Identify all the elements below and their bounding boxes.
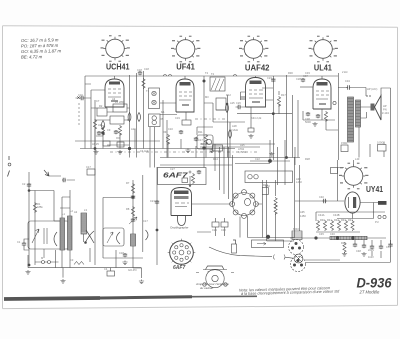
svg-text:A35: A35 xyxy=(300,210,305,214)
svg-text:A6 25: A6 25 xyxy=(92,142,99,146)
svg-text:A2: A2 xyxy=(74,210,78,214)
svg-text:R8: R8 xyxy=(126,207,130,211)
svg-text:A9: A9 xyxy=(98,123,102,127)
svg-text:UY41: UY41 xyxy=(366,185,383,194)
svg-text:C19: C19 xyxy=(175,116,180,120)
svg-text:R7: R7 xyxy=(126,181,130,185)
svg-text:C44B: C44B xyxy=(333,213,340,217)
svg-text:6AF7: 6AF7 xyxy=(163,171,189,180)
svg-text:C23: C23 xyxy=(267,76,272,80)
svg-text:1450: 1450 xyxy=(300,214,306,218)
svg-text:C26: C26 xyxy=(236,101,241,105)
svg-text:C2: C2 xyxy=(22,182,26,186)
svg-text:C33: C33 xyxy=(305,71,310,75)
svg-text:280: 280 xyxy=(119,100,124,104)
svg-text:R50: R50 xyxy=(265,184,270,188)
svg-text:R28: R28 xyxy=(305,157,310,161)
svg-text:R44: R44 xyxy=(348,218,353,222)
svg-text:C22: C22 xyxy=(255,157,260,161)
svg-text:C17: C17 xyxy=(198,138,203,142)
svg-text:C17: C17 xyxy=(86,165,91,169)
svg-text:2T Modèle: 2T Modèle xyxy=(359,290,380,295)
svg-text:M: M xyxy=(41,256,43,260)
svg-text:4,7MΩ: 4,7MΩ xyxy=(238,150,246,154)
svg-text:C34: C34 xyxy=(345,79,350,83)
svg-text:C18: C18 xyxy=(144,67,149,71)
svg-text:C16: C16 xyxy=(78,93,83,97)
svg-text:C10: C10 xyxy=(168,127,173,131)
svg-text:R41: R41 xyxy=(327,218,332,222)
svg-text:C27: C27 xyxy=(170,167,175,171)
svg-text:6040: 6040 xyxy=(293,227,299,231)
svg-text:PU: PU xyxy=(375,220,379,224)
svg-text:BE: 4,72 m: BE: 4,72 m xyxy=(21,54,43,59)
svg-text:UL41: UL41 xyxy=(314,64,333,73)
svg-text:110V: 110V xyxy=(368,255,374,259)
svg-text:C21: C21 xyxy=(150,199,155,203)
svg-text:C29: C29 xyxy=(212,228,217,232)
svg-text:M3: M3 xyxy=(205,95,209,99)
svg-text:A34 2,2k: A34 2,2k xyxy=(251,116,262,120)
svg-text:2 kΩ: 2 kΩ xyxy=(342,70,347,74)
svg-text:R42: R42 xyxy=(334,218,339,222)
svg-text:L450: L450 xyxy=(296,180,302,184)
svg-text:HP (A/C): HP (A/C) xyxy=(367,87,377,91)
svg-text:C4 4nF: C4 4nF xyxy=(140,149,149,153)
svg-text:A10: A10 xyxy=(131,127,136,131)
svg-text:D-936: D-936 xyxy=(357,276,392,291)
svg-text:C18: C18 xyxy=(119,251,124,255)
svg-text:C51: C51 xyxy=(386,245,391,249)
svg-text:du cadran: du cadran xyxy=(200,286,214,290)
svg-text:A15: A15 xyxy=(230,101,235,105)
svg-text:R40: R40 xyxy=(320,218,325,222)
svg-text:R30: R30 xyxy=(288,71,293,75)
svg-text:185k: 185k xyxy=(37,205,43,209)
svg-text:UAF42: UAF42 xyxy=(245,64,270,73)
svg-text:C44A: C44A xyxy=(318,213,325,217)
svg-text:A3: A3 xyxy=(112,97,116,101)
svg-text:C28: C28 xyxy=(296,77,301,81)
svg-text:R12: R12 xyxy=(226,93,231,97)
svg-text:R5: R5 xyxy=(160,117,164,121)
svg-text:C18: C18 xyxy=(137,68,142,72)
svg-text:C1: C1 xyxy=(17,240,21,244)
svg-text:PN: PN xyxy=(383,108,387,112)
svg-text:R11: R11 xyxy=(198,130,203,134)
svg-text:R2: R2 xyxy=(99,104,103,108)
svg-text:100Ω: 100Ω xyxy=(377,141,383,145)
svg-text:2,2kΩ: 2,2kΩ xyxy=(231,128,238,132)
svg-text:220V: 220V xyxy=(368,248,374,252)
svg-text:UF41: UF41 xyxy=(176,63,195,72)
svg-text:R17: R17 xyxy=(281,93,286,97)
svg-text:HP: HP xyxy=(383,104,387,108)
svg-text:C9: C9 xyxy=(107,128,111,132)
svg-text:GO: 6,35 m à 1,87 m: GO: 6,35 m à 1,87 m xyxy=(21,48,62,54)
svg-text:A25: A25 xyxy=(240,143,245,147)
svg-text:C17: C17 xyxy=(143,219,148,223)
svg-text:C46: C46 xyxy=(330,232,335,236)
svg-text:C7: C7 xyxy=(96,99,100,103)
svg-text:Oscillographe: Oscillographe xyxy=(170,226,189,230)
svg-text:C48: C48 xyxy=(356,249,361,253)
svg-text:A18: A18 xyxy=(232,124,237,128)
svg-text:GO-PO: GO-PO xyxy=(128,268,137,272)
svg-text:150Ω: 150Ω xyxy=(341,141,347,145)
svg-text:Z-134: Z-134 xyxy=(382,111,389,115)
svg-text:R4: R4 xyxy=(127,118,131,122)
svg-text:R9: R9 xyxy=(163,130,167,134)
svg-text:C3: C3 xyxy=(70,258,74,262)
svg-text:UCH41: UCH41 xyxy=(106,63,130,72)
svg-text:M1: M1 xyxy=(161,110,165,114)
svg-text:6AF7: 6AF7 xyxy=(173,265,185,271)
svg-text:5000: 5000 xyxy=(305,120,311,124)
svg-text:R47: R47 xyxy=(341,241,346,245)
svg-text:L40: L40 xyxy=(355,157,360,161)
svg-text:C40: C40 xyxy=(319,195,324,199)
svg-text:C30: C30 xyxy=(221,228,226,232)
svg-text:R43: R43 xyxy=(341,218,346,222)
svg-text:C4: C4 xyxy=(104,267,108,271)
svg-text:C45: C45 xyxy=(319,232,324,236)
svg-text:R14: R14 xyxy=(213,157,218,161)
